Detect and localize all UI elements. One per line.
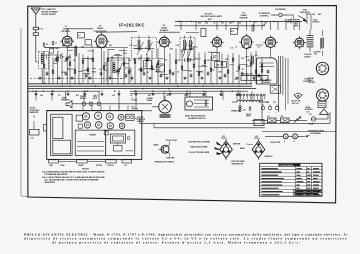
svg-text:EMITTER: EMITTER: [167, 158, 176, 160]
svg-text:CLUTCH: CLUTCH: [107, 165, 114, 167]
svg-text:R29: R29: [248, 47, 251, 49]
svg-text:OTHERWISE INDICATED.: OTHERWISE INDICATED.: [45, 173, 69, 176]
svg-text:R19: R19: [132, 107, 135, 109]
svg-text:TYPE 2: TYPE 2: [254, 138, 260, 140]
svg-text:L10 SPKR: L10 SPKR: [313, 51, 321, 53]
svg-text:R16: R16: [221, 22, 224, 24]
svg-text:R33: R33: [220, 95, 223, 97]
svg-text:C29: C29: [207, 60, 210, 62]
svg-text:PHONO: PHONO: [246, 114, 252, 116]
svg-text:1 ALL RESISTANCE VALUES ARE I: 1 ALL RESISTANCE VALUES ARE IN OHMS 1/2W…: [42, 170, 105, 173]
svg-text:BASE: BASE: [154, 143, 160, 146]
svg-text:C5: C5: [69, 57, 71, 59]
svg-text:1.5-7: 1.5-7: [62, 46, 66, 48]
svg-text:2ND DET AUDIO AMPL: 2ND DET AUDIO AMPL: [201, 15, 223, 18]
svg-text:C3: C3: [56, 48, 58, 50]
svg-text:TUNER: TUNER: [89, 134, 96, 136]
svg-text:R13: R13: [134, 45, 137, 47]
svg-text:12.6MH: 12.6MH: [132, 100, 138, 102]
svg-text:I1: I1: [284, 141, 285, 143]
svg-text:R20: R20: [254, 21, 257, 23]
svg-text:C33: C33: [241, 58, 244, 60]
svg-text:MOTOR: MOTOR: [96, 165, 103, 167]
svg-text:12AD6: 12AD6: [97, 27, 104, 30]
svg-text:COLLECTOR: COLLECTOR: [270, 142, 281, 144]
svg-text:INDICATOR: INDICATOR: [300, 11, 310, 14]
svg-text:SWITCH: SWITCH: [137, 121, 144, 123]
svg-text:IF=262.5KC: IF=262.5KC: [119, 22, 145, 27]
svg-text:A: A: [294, 135, 296, 138]
svg-text:THERM: THERM: [80, 96, 86, 98]
svg-text:C35: C35: [264, 23, 267, 25]
svg-text:TUNER: TUNER: [78, 165, 84, 167]
svg-text:.05: .05: [177, 71, 179, 73]
svg-text:TRANSISTOR: TRANSISTOR: [232, 163, 244, 166]
svg-text:RADIATOR: RADIATOR: [30, 111, 40, 114]
svg-text:R17: R17: [152, 69, 155, 71]
svg-text:10: 10: [235, 46, 237, 48]
svg-text:C26: C26: [238, 22, 241, 24]
svg-text:TRANSISTOR SYMBOL: TRANSISTOR SYMBOL: [155, 161, 176, 164]
svg-text:LIGHT: LIGHT: [93, 98, 98, 100]
svg-text:C51: C51: [309, 114, 312, 116]
svg-text:5: 5: [163, 70, 164, 72]
svg-text:VOLTMETER: VOLTMETER: [275, 9, 286, 11]
svg-text:MOTOR: MOTOR: [137, 117, 144, 119]
svg-text:CONTROL: CONTROL: [312, 22, 320, 24]
svg-text:.05: .05: [213, 22, 215, 24]
svg-text:.05: .05: [147, 72, 149, 74]
svg-text:R2: R2: [62, 57, 64, 59]
svg-text:680: 680: [158, 60, 161, 62]
svg-text:L30: L30: [31, 138, 34, 140]
svg-text:.05: .05: [58, 95, 60, 97]
svg-text:R6: R6: [158, 67, 160, 69]
svg-text:R21: R21: [188, 46, 191, 48]
svg-text:C23: C23: [164, 59, 167, 61]
svg-text:L1: L1: [44, 83, 46, 85]
svg-text:R32: R32: [148, 95, 151, 97]
svg-text:L9: L9: [235, 79, 237, 81]
svg-text:L12: L12: [243, 110, 246, 112]
svg-text:R5: R5: [145, 64, 147, 66]
svg-text:OUTPUT: OUTPUT: [304, 56, 311, 58]
svg-text:+: +: [276, 112, 277, 114]
svg-text:R27: R27: [236, 71, 239, 73]
svg-text:V4 12F8: V4 12F8: [204, 13, 212, 16]
svg-text:COLLECTOR RED WIRE: COLLECTOR RED WIRE: [189, 152, 210, 154]
svg-text:R31: R31: [76, 95, 79, 97]
svg-text:.05: .05: [263, 25, 265, 27]
svg-text:ALL VALUES BELOW 1.0 ARE IN MF: ALL VALUES BELOW 1.0 ARE IN MF UNLESS OT…: [45, 179, 100, 182]
svg-text:L18: L18: [307, 111, 310, 113]
svg-text:2 ALL CAPACITANCE VALUES OF 1: 2 ALL CAPACITANCE VALUES OF 1.0 AND ABOV…: [42, 176, 106, 179]
svg-text:OUTPUT TRANS: OUTPUT TRANS: [286, 21, 300, 24]
svg-text:EMITTER YELLOW WIRE: EMITTER YELLOW WIRE: [189, 141, 211, 143]
svg-text:C25: C25: [177, 60, 180, 62]
svg-text:L2: L2: [79, 35, 81, 37]
svg-text:R17: R17: [213, 58, 216, 60]
svg-text:L55: L55: [222, 136, 225, 138]
svg-text:R23: R23: [194, 58, 197, 60]
svg-text:INDICATED.: INDICATED.: [45, 181, 56, 184]
svg-text:+: +: [269, 112, 270, 114]
svg-text:R9: R9: [105, 70, 107, 72]
svg-text:12AE6: 12AE6: [240, 14, 247, 17]
svg-text:I2: I2: [294, 141, 295, 143]
svg-text:L7: L7: [132, 98, 134, 100]
svg-text:EMITTER: EMITTER: [233, 143, 241, 145]
svg-text:C31: C31: [230, 47, 233, 49]
svg-text:L19: L19: [124, 165, 127, 167]
svg-text:COLLECTOR: COLLECTOR: [166, 140, 178, 142]
svg-text:L13: L13: [267, 116, 270, 118]
svg-text:A: A: [285, 135, 287, 138]
svg-text:LITE DIMMER: LITE DIMMER: [310, 133, 321, 135]
svg-text:C21: C21: [146, 60, 149, 62]
svg-text:.02: .02: [130, 95, 132, 97]
svg-text:R25: R25: [218, 71, 221, 73]
svg-text:CONTROL: CONTROL: [303, 81, 311, 83]
svg-text:NOTES: NOTES: [82, 169, 90, 171]
svg-text:.05: .05: [212, 69, 214, 71]
svg-text:R19: R19: [170, 48, 173, 50]
svg-text:C27: C27: [189, 71, 192, 73]
svg-text:.02: .02: [99, 69, 101, 71]
svg-text:C12: C12: [98, 46, 101, 48]
svg-text:FILAMENTS SWITCH: FILAMENTS SWITCH: [188, 117, 206, 120]
svg-text:12AF6: 12AF6: [63, 28, 70, 31]
svg-text:1MEG: 1MEG: [294, 26, 299, 28]
svg-text:TYPE 1: TYPE 1: [221, 138, 227, 140]
svg-text:PILOT: PILOT: [93, 96, 98, 98]
svg-text:.01: .01: [140, 58, 142, 60]
svg-text:C1: C1: [41, 29, 43, 31]
svg-text:SPEAKER: SPEAKER: [61, 99, 70, 102]
svg-text:R11: R11: [123, 60, 126, 62]
svg-text:.05: .05: [241, 69, 243, 71]
svg-text:CONTROL: CONTROL: [260, 15, 270, 17]
svg-text:POWER: POWER: [147, 98, 154, 100]
svg-text:R27: R27: [260, 79, 263, 81]
svg-text:C18: C18: [139, 48, 142, 50]
svg-text:R1: R1: [46, 44, 48, 46]
svg-text:IF AMPL: IF AMPL: [160, 29, 169, 32]
svg-text:L56: L56: [255, 136, 258, 138]
svg-text:MOUNT SHUNT: MOUNT SHUNT: [42, 14, 57, 16]
svg-text:C16: C16: [128, 60, 131, 62]
svg-text:1MEG: 1MEG: [92, 72, 97, 74]
svg-text:R15: R15: [231, 31, 234, 33]
svg-text:150: 150: [166, 95, 169, 97]
svg-text:12AF6: 12AF6: [161, 27, 168, 30]
svg-text:RESIST: RESIST: [80, 98, 86, 100]
svg-text:SOLENOID: SOLENOID: [262, 82, 272, 84]
svg-text:C2: C2: [43, 52, 45, 54]
svg-text:220: 220: [116, 71, 119, 73]
svg-text:330: 330: [242, 46, 245, 48]
svg-text:AVC: AVC: [208, 18, 213, 21]
svg-text:BASE BLACK WIRE: BASE BLACK WIRE: [191, 146, 209, 149]
svg-text:DRIVER: DRIVER: [240, 18, 248, 20]
svg-text:RF AMPL: RF AMPL: [61, 30, 71, 33]
svg-text:MUTE: MUTE: [246, 116, 250, 118]
svg-text:ON-OFF SW.: ON-OFF SW.: [291, 101, 301, 103]
svg-text:R30 VOL: R30 VOL: [292, 103, 299, 105]
svg-text:C3: C3: [55, 43, 57, 45]
svg-text:R7: R7: [91, 59, 93, 61]
svg-text:L8: L8: [266, 79, 268, 81]
svg-text:L6 IF: L6 IF: [216, 64, 220, 66]
